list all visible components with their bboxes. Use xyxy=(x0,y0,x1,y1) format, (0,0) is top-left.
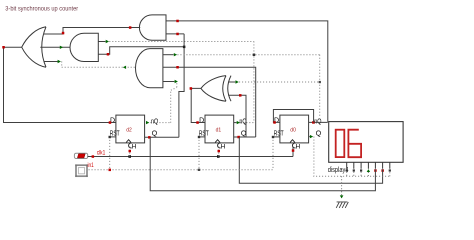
wire dotted nQ2: d2 nQ to and U4 input1 row xyxy=(146,83,177,124)
and-gate U3 (middle 2-input AND, left-facing) xyxy=(70,33,98,61)
wire and U2 output to or1 input1 xyxy=(44,26,141,34)
xor-gate U5 (2-input XOR, left-facing) xyxy=(201,76,231,102)
svg-text:d0: d0 xyxy=(290,127,296,133)
wire dotted d0 RST riser xyxy=(272,136,280,170)
svg-text:D: D xyxy=(199,118,204,125)
svg-text:RST: RST xyxy=(110,130,120,137)
svg-text:RST: RST xyxy=(274,130,284,137)
wire and U3 output to or1 input2 xyxy=(40,46,70,49)
wire dotted Q0 to display pin7 xyxy=(309,135,390,176)
svg-text:H: H xyxy=(132,143,137,150)
wire d0 nQ output line xyxy=(309,121,328,124)
wire Q1 bus to display pin6 xyxy=(239,137,382,183)
wire dotted ground drop xyxy=(340,176,344,198)
wire dotted or1 input3 to and U4 output xyxy=(62,62,136,69)
display4 pin stubs xyxy=(347,162,390,169)
and-gate U2 (top 2-input AND, left-facing) xyxy=(139,15,166,40)
wire dotted RST row from in1 xyxy=(89,169,273,172)
wire d2 Q output stub xyxy=(145,136,179,139)
wire and U4 input2 to Q2 riser xyxy=(163,66,184,69)
svg-text:Q: Q xyxy=(316,131,322,138)
wire dotted d2 clock stub xyxy=(129,147,132,157)
and-gate U4 (big 3-input AND, left-facing) xyxy=(136,49,163,88)
svg-text:nQ: nQ xyxy=(151,118,159,125)
display4 pin markers 1-4 green xyxy=(346,169,363,171)
display4 pin marker 5 red xyxy=(374,169,377,172)
wire Q2 bus to display pin5 xyxy=(150,137,375,190)
wire dotted d2 RST riser xyxy=(109,136,116,170)
wire or1 input3 stub xyxy=(44,60,61,63)
wire dotted row3 xor U5 input1 xyxy=(228,80,321,83)
wire clock distribution line xyxy=(88,155,293,158)
wire Q2 riser with jog xyxy=(179,34,184,137)
wire and U4 input1 stub and row2 dotted xyxy=(163,53,320,117)
flip-flop d1 box xyxy=(205,115,234,143)
wire dotted d1 clock stub xyxy=(218,147,221,157)
d2 clock caret CH xyxy=(126,140,132,148)
clock source clk1 icon xyxy=(74,153,87,158)
display4 digit 6 xyxy=(348,130,361,158)
wire crossbar Q net to Q1 riser xyxy=(184,67,256,137)
wire and U3 input2 to Q2 riser xyxy=(98,46,185,56)
svg-text:in1: in1 xyxy=(88,162,95,169)
svg-text:d1: d1 xyxy=(216,127,222,133)
flip-flop d0 box xyxy=(280,115,309,143)
svg-text:3-bit synchronous up counter: 3-bit synchronous up counter xyxy=(5,6,79,13)
wire dotted nQ1 row1: and U3 input1 to d1 nQ riser xyxy=(98,40,255,123)
display4 box xyxy=(329,122,403,163)
display4 pin marker 7 green xyxy=(389,169,391,171)
svg-text:Q: Q xyxy=(152,131,158,138)
display4 pin marker 6 red xyxy=(381,169,384,172)
ground symbol xyxy=(336,202,348,208)
wire xor U5 input2 to Q1 xyxy=(228,94,246,137)
svg-text:H: H xyxy=(296,143,301,150)
svg-text:clk1: clk1 xyxy=(97,150,106,157)
wire and U2 input2 stub xyxy=(166,33,184,36)
d0 clock caret CH xyxy=(290,140,296,148)
svg-text:d2: d2 xyxy=(126,127,132,133)
wire and U4 input3 stub with dotted diagonal xyxy=(163,80,178,83)
wire d1 Q output stub xyxy=(234,136,256,139)
or-gate U1 (3-input OR, left-facing) xyxy=(22,27,46,67)
button source in1 icon xyxy=(75,165,87,177)
wire d1 nQ output stub dotted xyxy=(234,121,254,124)
wire dotted d0 clock stub xyxy=(292,147,295,157)
svg-text:RST: RST xyxy=(199,130,209,137)
d1 clock caret CH xyxy=(215,140,221,148)
display4 digit 0 xyxy=(336,130,345,157)
wire nQ0 net: and U2 input1 to d0 nQ riser xyxy=(166,20,328,122)
wire dotted display pins 1-4 stubs xyxy=(347,172,369,177)
svg-text:H: H xyxy=(221,143,226,150)
wire or1 output to d2 D input xyxy=(2,46,116,124)
wire xor U5 output to d1 D input xyxy=(190,87,205,124)
flip-flop d2 box xyxy=(116,115,145,143)
wire dotted d1 RST riser xyxy=(198,136,205,170)
svg-text:display4: display4 xyxy=(328,167,349,174)
svg-text:nQ: nQ xyxy=(314,118,322,125)
wire d0 feedback loop nQ to D xyxy=(273,110,313,124)
